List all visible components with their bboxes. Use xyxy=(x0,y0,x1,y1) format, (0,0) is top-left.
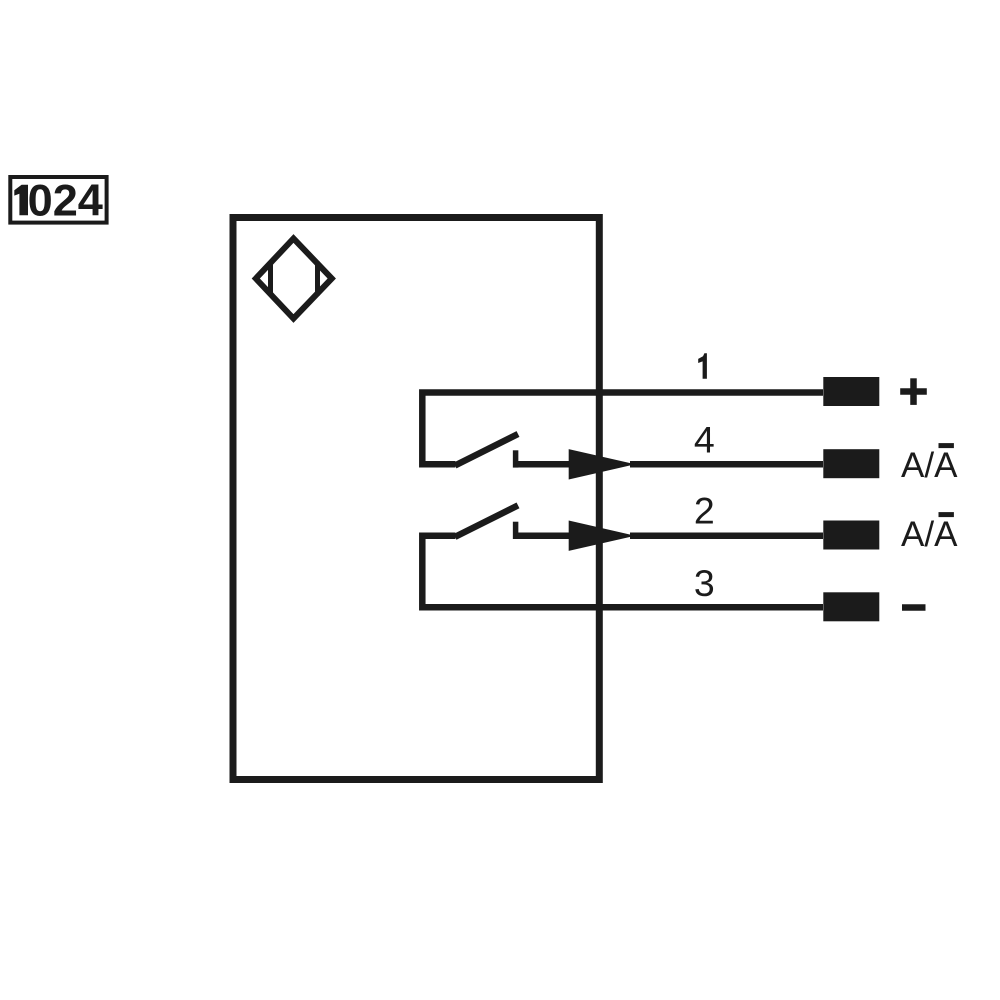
svg-text:A/A: A/A xyxy=(901,515,958,554)
svg-text:4: 4 xyxy=(694,418,715,460)
svg-text:3: 3 xyxy=(694,562,715,604)
svg-text:024: 024 xyxy=(28,176,104,225)
svg-text:2: 2 xyxy=(694,490,715,532)
svg-text:A/A: A/A xyxy=(901,446,958,485)
